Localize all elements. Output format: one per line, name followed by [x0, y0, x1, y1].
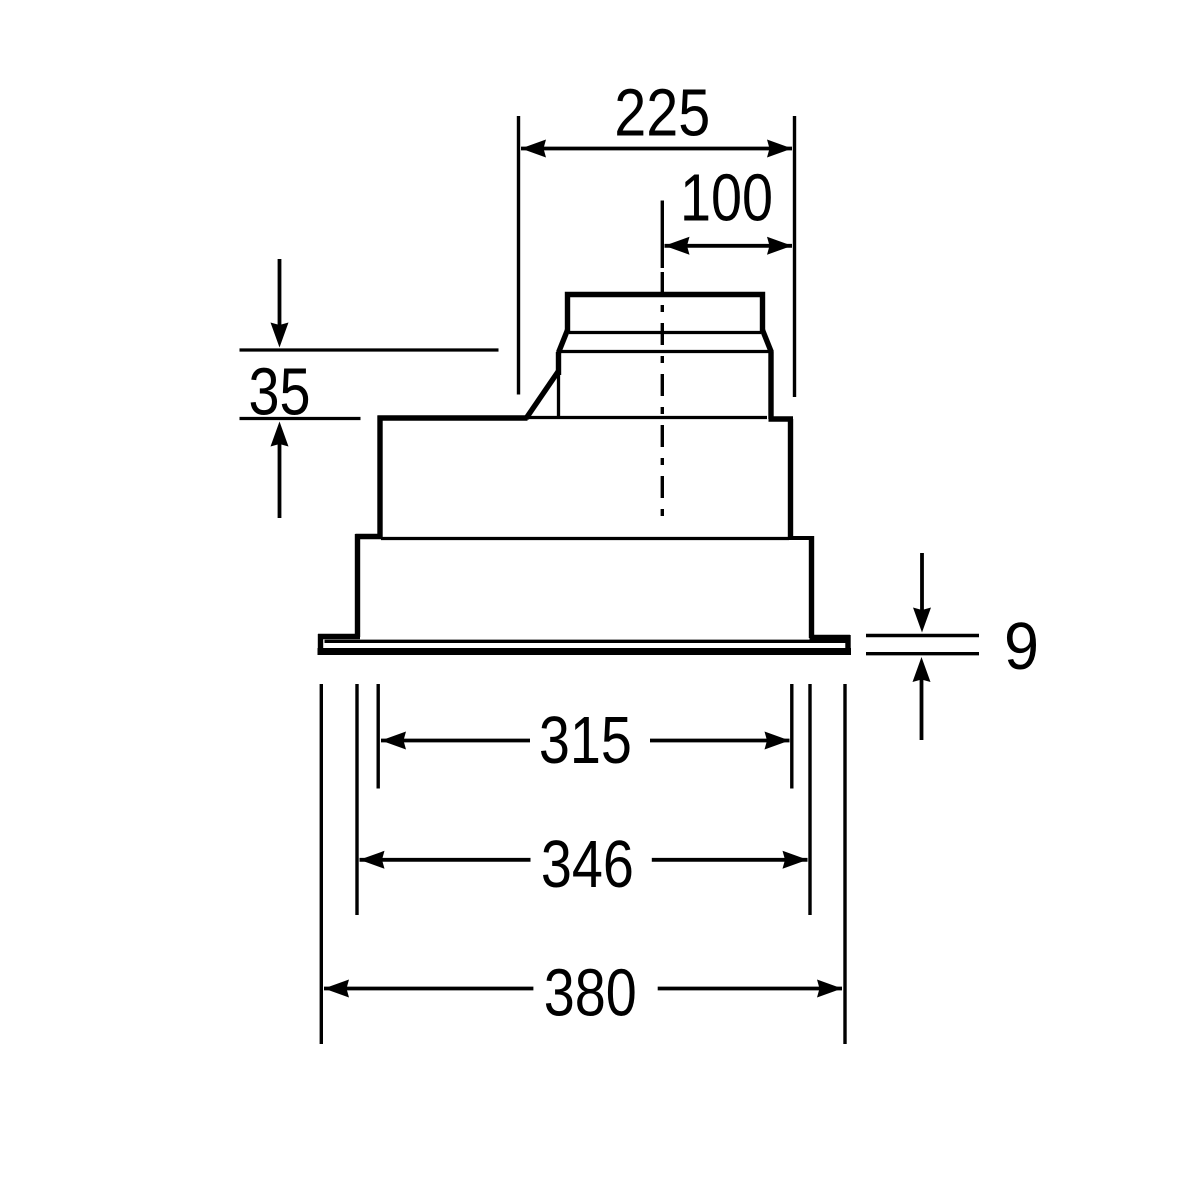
duct collar right flare: [763, 330, 772, 353]
dimension 346 line right segment: [652, 858, 808, 862]
hood upper body top edge right: [769, 416, 794, 421]
seam between upper and lower body: [381, 537, 789, 540]
dimension 35 down arrowhead: [271, 323, 289, 348]
dimension 9 down arrowhead: [913, 608, 931, 633]
dimension 315 extension line right: [790, 684, 793, 789]
svg-text:380: 380: [544, 955, 637, 1030]
right step shoulder: [788, 536, 814, 540]
dimension 315 line right segment: [650, 739, 790, 743]
svg-text:315: 315: [539, 703, 632, 778]
dimension 100 arrowhead right: [767, 237, 792, 255]
dimension 225 extension line right: [793, 116, 796, 397]
dimension 315 arrowhead left: [381, 732, 406, 750]
dimension 9 up arrowhead: [913, 657, 931, 682]
dimension 315 arrowhead right: [765, 732, 790, 750]
dimension 100 arrowhead left: [665, 237, 690, 255]
hood top seam under duct collar: [529, 416, 767, 419]
dimension 9 down arrow stem: [920, 553, 924, 612]
dimension 346 arrowhead left: [360, 851, 385, 869]
dimension 35 up arrowhead: [271, 422, 289, 447]
centerline of duct collar: [661, 201, 664, 269]
hood upper body left side: [377, 416, 382, 538]
dimension 35 up arrow stem: [278, 443, 282, 518]
dimension 100 line: [665, 244, 793, 248]
dimension 380 line right segment: [658, 987, 842, 991]
dimension 225 arrowhead left: [521, 140, 546, 158]
dimension 346 arrowhead right: [783, 851, 808, 869]
flange top edge right: [810, 635, 851, 640]
duct collar left side lower: [557, 374, 560, 417]
dimension 35 upper reference line: [240, 348, 499, 351]
dimension 315 line left segment: [381, 739, 530, 743]
dimension 9 upper reference line: [866, 634, 979, 637]
dimension 380 arrowhead right: [817, 980, 842, 998]
flange inner lip line: [325, 640, 846, 643]
duct collar left flare: [559, 330, 568, 353]
duct collar cap lip line: [569, 331, 761, 334]
dimension 9 lower reference line: [866, 652, 979, 655]
dimension 380 extension line left: [320, 684, 323, 1044]
dimension 225 arrowhead right: [767, 140, 792, 158]
dimension 35 down arrow stem: [278, 259, 282, 330]
dimension 225 line: [521, 147, 792, 151]
svg-text:225: 225: [614, 75, 710, 150]
dimension 225 extension line left: [517, 116, 520, 395]
svg-text:100: 100: [680, 160, 773, 235]
duct collar flare seam line: [559, 350, 771, 353]
lower body right side: [809, 536, 814, 638]
svg-text:346: 346: [541, 827, 634, 902]
lower body left side: [355, 534, 360, 637]
flange bottom edge: [318, 648, 852, 655]
dimension 9 up arrow stem: [920, 679, 924, 740]
dimension 346 extension line left: [355, 684, 358, 915]
dimension 346 line left segment: [360, 858, 531, 862]
flange right end: [845, 635, 850, 654]
svg-text:35: 35: [249, 355, 311, 430]
hood upper body right side: [788, 419, 793, 538]
flange left end: [318, 634, 323, 652]
dimension 380 line left segment: [324, 987, 533, 991]
dimension 380 arrowhead left: [324, 980, 349, 998]
flange top edge left: [318, 634, 360, 639]
hood sloped top panel: [526, 371, 559, 419]
hood upper body top edge left: [378, 415, 528, 420]
duct collar left side upper: [556, 352, 561, 375]
duct collar right side: [768, 352, 773, 419]
dimension 380 extension line right: [843, 684, 846, 1044]
dimension 346 extension line right: [808, 684, 811, 915]
left step shoulder: [356, 534, 383, 539]
duct collar cap: [568, 295, 763, 333]
svg-text:9: 9: [1004, 609, 1039, 684]
dimension 315 extension line left: [377, 684, 380, 789]
dimension 35 lower reference line: [240, 417, 361, 420]
